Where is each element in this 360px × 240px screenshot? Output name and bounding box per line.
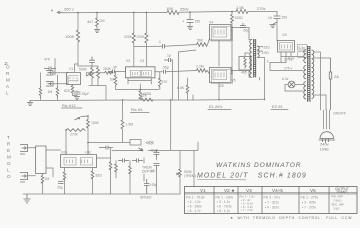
wire jack1 stub <box>54 59 56 76</box>
SECTION_BOTTOM <box>23 94 264 204</box>
wire V3 cath bus <box>122 84 159 91</box>
wire V2 cath <box>64 168 66 173</box>
wire wiper vert <box>87 116 89 120</box>
wire x194 vert <box>193 151 195 187</box>
svg-text:250v: 250v <box>180 7 189 12</box>
resistor into PI <box>105 71 113 74</box>
svg-text:★ WITH TREMOLO DEPTH CONTR: ★ WITH TREMOLO DEPTH CONTROL, FULL CCW <box>230 216 352 220</box>
svg-text:.1μ: .1μ <box>166 54 171 58</box>
wire drop x78 <box>77 13 79 31</box>
switch ON/OFF <box>314 58 331 110</box>
capacitor coupling V4 <box>163 44 165 49</box>
rectifier V6 EZ81 <box>278 41 295 53</box>
wire speed pot <box>179 151 181 181</box>
wire drop x277 <box>276 12 278 17</box>
resistor 270K horiz <box>66 129 85 132</box>
svg-text:Pin 3 - 14 v: Pin 3 - 14 v <box>264 196 281 200</box>
fuse 2A <box>329 58 331 110</box>
svg-text:25μ: 25μ <box>57 186 63 190</box>
svg-text:1.5K: 1.5K <box>236 5 245 10</box>
wire T2 sec bottom <box>314 95 327 110</box>
svg-text:+25μ: +25μ <box>150 183 158 187</box>
wire mid bus y99.5 <box>30 99 264 100</box>
wire V4 plate <box>231 27 249 29</box>
capacitor 40uF <box>154 151 160 158</box>
resistor V2 cath <box>63 172 66 180</box>
node HT dot <box>51 10 53 12</box>
wire mains cable <box>324 110 330 129</box>
svg-text:Ric #12: Ric #12 <box>62 103 76 108</box>
resistor 82K trem <box>91 171 94 179</box>
svg-text:10K: 10K <box>166 6 173 11</box>
resistor 820 PI cath <box>139 91 142 99</box>
resistor 465 zigzag <box>244 58 246 69</box>
resistor 100K <box>76 30 79 42</box>
wire 1M trem vert <box>42 174 44 195</box>
wire PI cath gnd <box>139 98 141 100</box>
label V4+5 cells <box>264 196 281 210</box>
svg-text:SPEED: SPEED <box>140 196 152 200</box>
wire osc box <box>130 140 141 146</box>
wire drop x97 <box>96 13 98 19</box>
svg-text:• 3 - 305v: • 3 - 305v <box>302 201 316 205</box>
wire HT riser x263 <box>259 78 261 81</box>
jack J3 <box>20 145 28 155</box>
svg-text:• 6 - 79.5v: • 6 - 79.5v <box>217 205 232 209</box>
pot wiper arrow vol <box>87 74 92 77</box>
riser x193 tick <box>192 95 194 100</box>
resistor 220K a <box>132 33 135 43</box>
svg-text:1.5M: 1.5M <box>126 123 134 127</box>
resistor 1.5M <box>121 120 124 129</box>
wire x232 lower <box>231 23 232 74</box>
svg-text:LINE: LINE <box>320 147 329 152</box>
svg-text:EL-84's: EL-84's <box>209 104 222 109</box>
jack J1 <box>46 71 53 76</box>
resistor depth b <box>129 166 132 174</box>
svg-text:82Ω: 82Ω <box>96 174 103 178</box>
svg-text:6.3v: 6.3v <box>299 46 306 50</box>
svg-text:.05: .05 <box>150 169 155 173</box>
capacitor .05 input <box>44 67 56 71</box>
wire sec tap1 <box>257 46 262 48</box>
svg-text:T: T <box>7 135 10 140</box>
svg-text:• 6 - 190v: • 6 - 190v <box>188 205 202 209</box>
winding label box 2 <box>298 52 308 58</box>
wire jack1 to grid <box>53 72 68 74</box>
capacitor 25uF bypass <box>74 92 81 94</box>
svg-text:V3: V3 <box>126 59 130 63</box>
pot wiper arrow 250 <box>139 148 144 151</box>
wire underline ric3 <box>131 112 150 114</box>
svg-text:56K: 56K <box>197 39 204 43</box>
wire left vert <box>40 73 42 100</box>
capacitor .05 PI in <box>109 70 119 74</box>
output transformer T1 core hatch <box>254 40 256 76</box>
svg-text:16: 16 <box>268 16 272 20</box>
svg-text:3: 3 <box>267 60 269 64</box>
svg-text:220K: 220K <box>137 35 146 39</box>
svg-text:47K: 47K <box>162 80 169 84</box>
capacitor 16/150 <box>274 16 281 19</box>
svg-text:EZ 81: EZ 81 <box>272 104 283 109</box>
wire resistor right down <box>110 169 112 192</box>
svg-text:Ric #3: Ric #3 <box>131 107 143 112</box>
svg-text:V2 ★: V2 ★ <box>224 188 236 193</box>
wire +250 rail <box>112 100 198 151</box>
wire to gnd x97 <box>96 27 98 30</box>
svg-text:Pin 1 - 100v: Pin 1 - 100v <box>216 196 234 200</box>
svg-text:1M: 1M <box>45 177 50 181</box>
resistor 500K vol <box>91 68 94 79</box>
pentode V5 <box>210 68 232 83</box>
wire cap to V5 grid <box>166 71 197 72</box>
ground (x190) <box>187 27 193 30</box>
resistor 1M trem grid <box>41 176 44 184</box>
wire drop x146.4 <box>145 13 147 34</box>
wire HT winding lead <box>270 57 303 71</box>
svg-text:• 3 - 1.2v: • 3 - 1.2v <box>188 200 201 204</box>
svg-text:E: E <box>7 148 10 153</box>
resistor speed pot <box>179 169 182 177</box>
SECTION_TREM <box>7 100 198 195</box>
SECTION_PHASE <box>109 50 210 100</box>
wire bottom bus y194 <box>23 193 170 195</box>
svg-text:3.5Ω: 3.5Ω <box>262 51 270 55</box>
wire heater bus <box>281 56 303 58</box>
wire x133.8 lower <box>133 43 135 66</box>
wire cap right <box>97 148 111 163</box>
pot arrow speed <box>177 173 180 175</box>
svg-text:V2A: V2A <box>61 151 68 155</box>
capacitor .05 V5 feed <box>164 70 166 74</box>
wire HT arrow <box>57 11 62 14</box>
wire cap to gnd x277 <box>273 22 278 25</box>
ground (bus left) <box>27 100 33 106</box>
svg-text:1M: 1M <box>110 78 115 82</box>
wire speed bus y180 <box>93 170 157 194</box>
capacitor .02 top <box>89 57 95 63</box>
svg-text:.05: .05 <box>112 66 117 70</box>
wire V3 inner bottom <box>128 78 151 84</box>
ground (V1 cath) <box>74 96 80 100</box>
wire 100K down <box>87 128 89 143</box>
resistor 56K <box>197 43 208 47</box>
wire drop x232 <box>231 12 233 15</box>
svg-text:1/0: 1/0 <box>282 33 287 37</box>
svg-text:• 7 - 321v: • 7 - 321v <box>265 201 279 205</box>
wire depth b <box>129 161 131 180</box>
wire y142 link <box>88 142 130 144</box>
mains transformer T2 secondary winding <box>312 50 314 98</box>
resistor 465 loop <box>239 57 251 71</box>
wire 40uF down <box>156 157 158 160</box>
svg-text:500K: 500K <box>79 68 88 72</box>
wire V1 cathode <box>72 85 74 86</box>
output transformer T1 primary <box>250 40 252 78</box>
ground (bottom left) <box>24 194 31 203</box>
label V2 cells <box>216 196 234 214</box>
wire V3 out right <box>155 71 163 73</box>
wire jack4 <box>27 175 36 177</box>
resistor 250K vol2 <box>97 68 100 79</box>
capacitor 150 (rail) <box>187 20 194 23</box>
capacitor pair right <box>99 146 113 150</box>
wire sec tap2 <box>257 50 262 52</box>
svg-text:• 7 - 275v: • 7 - 275v <box>302 206 316 210</box>
resistor 1.5K (rail) <box>236 10 248 14</box>
wire V1 plate up <box>75 64 79 72</box>
resistor 1M grid mid <box>56 86 59 98</box>
wire block out <box>46 150 61 177</box>
wire riser x187.5 top <box>187 78 189 85</box>
svg-text:270K: 270K <box>70 133 79 137</box>
svg-text:250K: 250K <box>103 67 112 71</box>
wire PI grid <box>119 68 126 72</box>
svg-text:270v: 270v <box>257 6 266 11</box>
resistor 220K b <box>145 33 148 43</box>
svg-text:25μF: 25μF <box>82 92 90 96</box>
wire jack2 to grid <box>53 76 68 84</box>
svg-text:4x7: 4x7 <box>87 19 94 24</box>
svg-text:2.2M: 2.2M <box>196 65 204 69</box>
ground (x97) <box>94 30 100 33</box>
wire V4 cathode <box>218 40 220 66</box>
label V6 cells <box>301 196 319 210</box>
svg-text:220K: 220K <box>124 35 133 39</box>
wire drop x190 <box>189 13 191 20</box>
wire grid into V5 <box>207 71 209 75</box>
svg-text:100: 100 <box>99 19 105 23</box>
capacitor .05 d2 <box>132 159 143 163</box>
svg-text:V3: V3 <box>246 188 252 193</box>
jack J4 <box>20 173 28 183</box>
output transformer T1 secondary <box>257 46 259 57</box>
resistor right trem <box>109 162 112 170</box>
pilot lamp <box>288 81 295 88</box>
wire x146.4 lower <box>145 43 147 66</box>
resistor 820 cathode <box>71 86 74 93</box>
svg-text:MODEL 20/T S‌CH.‌# 1809: MODEL 20/T S‌CH.‌# 1809 <box>197 173 307 180</box>
label OUTPUT cells <box>331 195 344 211</box>
SECTION_PREAMP <box>4 57 114 109</box>
svg-text:=15Ω: =15Ω <box>262 46 271 50</box>
resistor 4K7 <box>96 18 99 26</box>
svg-text:V5: V5 <box>232 79 236 83</box>
wire title underline <box>197 179 246 181</box>
wire sec tap3 out <box>257 58 264 100</box>
riser x178.5 <box>179 50 197 100</box>
svg-text:O: O <box>7 161 11 166</box>
svg-text:100K: 100K <box>91 121 100 125</box>
wire T1 primary top <box>249 28 252 40</box>
svg-text:150: 150 <box>195 20 201 24</box>
svg-text:150: 150 <box>282 16 288 20</box>
svg-text:• 8 - 1.1v: • 8 - 1.1v <box>217 209 230 213</box>
svg-text:V4+5: V4+5 <box>272 188 283 193</box>
capacitor .05 d1 <box>118 159 129 163</box>
SECTION_POWER <box>208 21 270 110</box>
svg-text:Pin 1 - 275v: Pin 1 - 275v <box>301 196 319 200</box>
capacitor speed <box>154 164 160 171</box>
svg-text:O: O <box>6 65 10 70</box>
svg-text:260 v: 260 v <box>64 7 74 12</box>
svg-text:• 8 - 1.7v: • 8 - 1.7v <box>188 209 201 213</box>
resistor 1M grid left <box>39 86 42 98</box>
svg-text:Pin 1 - 75.8v: Pin 1 - 75.8v <box>186 196 205 200</box>
svg-text:M: M <box>6 78 10 83</box>
table column lines <box>214 187 329 214</box>
wire underline ric <box>62 107 83 109</box>
svg-text:V6: V6 <box>310 188 316 193</box>
svg-text:1M: 1M <box>48 90 53 94</box>
wire underline EZ81 <box>271 109 288 111</box>
resistor bus inline <box>141 98 153 101</box>
svg-text:220Ω: 220Ω <box>235 16 244 20</box>
wire top rail left <box>62 11 167 13</box>
wire V2 plates up <box>66 143 88 155</box>
svg-text:82K: 82K <box>141 94 148 98</box>
capacitor 50u screen <box>240 23 246 28</box>
capacitor 25u trem <box>58 182 64 184</box>
svg-text:.1: .1 <box>158 40 161 44</box>
svg-text:820: 820 <box>64 89 70 93</box>
ground (x277) <box>270 25 276 28</box>
table header separator <box>185 193 358 194</box>
svg-text:ON/OFF: ON/OFF <box>333 112 346 116</box>
wire 270K left down <box>65 130 67 148</box>
svg-text:WATKINS DOMINATOR: WATKINS DOMINATOR <box>216 162 301 169</box>
wire 56K to V4 <box>208 39 210 45</box>
mains plug <box>319 132 336 143</box>
svg-text:3.5Ω: 3.5Ω <box>333 207 340 211</box>
wire pots lower <box>89 78 106 100</box>
wire depth a <box>115 161 117 179</box>
mains transformer T2 core <box>308 46 310 102</box>
resistor 10K (rail) <box>167 11 179 15</box>
svg-text:V4: V4 <box>209 21 213 25</box>
svg-text:M: M <box>7 155 11 160</box>
wire 47K vert <box>159 72 161 90</box>
pilot lamp cross <box>289 82 294 87</box>
wire lamp left <box>285 85 303 92</box>
resistor 100K trem <box>87 120 90 128</box>
wire mid vert <box>57 75 59 100</box>
mains transformer T2 hatch <box>308 47 310 100</box>
wire rail to rectifier <box>276 19 279 41</box>
wire V2 cath gnd <box>64 179 66 195</box>
output transformer T1 core <box>254 39 256 78</box>
wire V1 plate to pots <box>78 63 98 68</box>
wire drop x78 lower <box>77 42 79 64</box>
twin triode V2 <box>61 155 97 168</box>
wire T2 sec top <box>314 52 321 70</box>
wire wiper to resistor <box>87 73 114 76</box>
riser x187.5 resistor 6.8K <box>187 93 189 100</box>
wire 1.5M down <box>122 129 124 143</box>
pentode V4 <box>210 25 232 41</box>
mains transformer T2 primary winding <box>304 50 306 100</box>
svg-text:L: L <box>7 168 10 173</box>
triode V1 <box>67 73 81 85</box>
wire cath to cap <box>73 91 78 96</box>
resistor 470K V5 grid <box>197 69 207 72</box>
wire depth pot <box>143 158 145 179</box>
resistor 1M PI grid <box>114 75 117 85</box>
label V1 cells <box>186 196 205 214</box>
label V3 cells <box>240 195 256 213</box>
svg-text:2A: 2A <box>334 74 339 79</box>
wire jack3 <box>27 147 36 149</box>
svg-text:50μ: 50μ <box>244 29 250 33</box>
wire 465 top <box>245 53 249 57</box>
wire x180 down <box>170 180 180 194</box>
wire V6 pins down <box>281 52 291 57</box>
resistor 220R screen <box>231 15 234 23</box>
svg-text:47K: 47K <box>44 58 51 62</box>
svg-text:• 7 - 2.6v: • 7 - 2.6v <box>241 208 253 212</box>
wire lamp lead <box>281 57 303 85</box>
wire cap to 56K <box>165 45 197 47</box>
svg-text:• 4 - 301v: • 4 - 301v <box>265 206 279 210</box>
svg-text:2.75v: 2.75v <box>284 58 293 62</box>
SECTION_PSU <box>270 19 346 152</box>
input block <box>36 146 47 174</box>
resistor depth a <box>115 164 118 172</box>
svg-text:100K: 100K <box>65 34 75 39</box>
SECTION_TABLE <box>185 187 358 220</box>
pot wiper arrow trem <box>75 116 89 120</box>
svg-text:465: 465 <box>241 71 247 75</box>
wire top rail right <box>248 11 277 13</box>
wire underline EL84 <box>208 109 231 111</box>
wire top rail mid <box>179 10 236 13</box>
svg-text:275 v: 275 v <box>284 67 293 71</box>
svg-text:.05μ: .05μ <box>162 66 169 70</box>
wire 82K vert <box>92 168 94 193</box>
SECTION_TOP <box>51 5 287 74</box>
wire V5 cathode <box>218 83 220 100</box>
wire drop x133.8 <box>133 13 135 34</box>
winding label box 1 <box>298 45 308 51</box>
svg-text:V1: V1 <box>200 188 206 193</box>
wire 1M PI vert <box>116 72 122 90</box>
wire T1 primary bottom <box>249 71 252 78</box>
wire y46 feed <box>134 45 163 47</box>
wire cap to gnd <box>189 23 191 27</box>
jack J2 <box>46 82 53 87</box>
wire V5 plate <box>231 70 249 72</box>
SECTION_TITLE <box>197 162 307 180</box>
riser 1.5M x122 <box>122 100 124 121</box>
capacitor bottom 25u <box>144 179 150 194</box>
capacitor top small <box>164 58 171 62</box>
svg-text:O: O <box>7 174 11 179</box>
svg-text:• 3 - 1.1v: • 3 - 1.1v <box>217 200 230 204</box>
svg-text:V3: V3 <box>140 59 144 63</box>
svg-text:6.3v: 6.3v <box>282 77 289 81</box>
svg-text:6.8K: 6.8K <box>177 86 185 90</box>
riser x172.5 <box>171 60 173 100</box>
svg-text:L: L <box>6 91 9 96</box>
twin triode V3 <box>126 67 156 78</box>
wire x156 down <box>156 180 158 194</box>
svg-text:+250: +250 <box>145 140 155 145</box>
svg-text:V1: V1 <box>69 67 73 71</box>
resistor 47K PI <box>159 77 162 89</box>
table frame <box>185 187 358 214</box>
resistor 6.8K <box>186 85 189 93</box>
